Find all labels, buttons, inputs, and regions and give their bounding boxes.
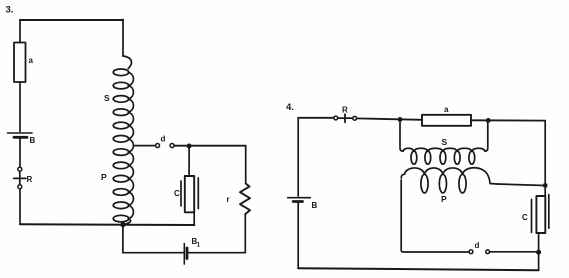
svg-text:C: C	[522, 213, 528, 222]
junction node (capacitor top, c4)	[543, 183, 548, 188]
wire: S coil left drop	[399, 119, 401, 147]
svg-text:4.: 4.	[286, 102, 294, 113]
svg-text:a: a	[444, 105, 449, 114]
capacitor C (circuit 4)	[532, 195, 549, 233]
wire: P coil left vertical down to key d	[401, 180, 469, 252]
svg-text:R: R	[342, 106, 348, 115]
resistor a (circuit 4)	[422, 115, 471, 126]
wire: battery B1 to bottom right	[189, 252, 246, 254]
wire: tap from coil to key d	[135, 145, 156, 147]
svg-text:P: P	[441, 194, 447, 204]
svg-text:S: S	[442, 137, 448, 147]
wire: capacitor C top lead (c4)	[544, 185, 546, 196]
junction node (S coil left, c4)	[398, 117, 403, 122]
wire: c3 coil top lead	[122, 20, 124, 57]
wire: c4 bottom right vertical	[538, 252, 540, 270]
wire: c4 top left segment	[298, 117, 334, 119]
wire: c3 left, resistor to battery	[19, 82, 21, 132]
svg-text:d: d	[161, 135, 166, 144]
svg-text:r: r	[227, 195, 230, 204]
battery B1 (circuit 3)	[184, 244, 187, 265]
svg-text:a: a	[29, 56, 34, 65]
junction node (S coil right, c4)	[486, 118, 491, 123]
wire: capacitor C bottom lead (c4)	[538, 233, 540, 252]
wire: c4 left vertical (top to battery)	[297, 118, 299, 196]
wire: P coil right stub to capacitor branch	[497, 184, 545, 186]
svg-text:B: B	[30, 136, 36, 145]
wire: c4 right vertical (top to capacitor)	[544, 121, 546, 186]
wire: key d to bottom right junction	[490, 251, 539, 253]
wire: junction down to capacitor C	[188, 146, 190, 176]
junction node (c4 bottom right)	[536, 250, 541, 255]
wire: key d to right branch	[174, 145, 246, 147]
svg-text:S: S	[104, 93, 110, 103]
wire: c3 left, key to bottom	[19, 189, 21, 225]
wire: right branch down to resistor r	[245, 146, 247, 184]
key d contacts (circuit 3)	[156, 144, 175, 148]
wire: c3 lower loop left vertical	[122, 225, 124, 253]
capacitor C (circuit 3)	[181, 176, 198, 212]
wire: c3 bottom horizontal	[20, 223, 194, 226]
wire: c3 lower loop to battery B1	[123, 252, 184, 254]
battery B (circuit 4)	[288, 198, 311, 202]
wire: resistor r to bottom right corner	[244, 214, 246, 253]
contact key R (circuit 4)	[334, 114, 357, 122]
junction node (c3 bottom)	[120, 222, 125, 227]
wire: c3 left, battery to key R	[19, 139, 21, 167]
svg-text:P: P	[101, 172, 107, 182]
svg-text:C: C	[174, 189, 180, 198]
key d contacts (circuit 4)	[469, 250, 489, 254]
resistor a (circuit 3)	[14, 43, 26, 83]
svg-text:R: R	[27, 175, 33, 184]
svg-text:d: d	[475, 241, 480, 250]
wire: c3 top horizontal	[20, 19, 123, 21]
svg-text:3.: 3.	[6, 5, 14, 16]
coil S (circuit 4)	[400, 148, 488, 164]
induction coil S/P (circuit 3)	[113, 56, 133, 224]
contact key R (circuit 3)	[14, 167, 26, 189]
wire: c3 left top vertical	[19, 20, 21, 43]
wire: c4 bottom horizontal	[298, 268, 538, 270]
resistor r zigzag (circuit 3)	[240, 184, 250, 215]
svg-text:B: B	[312, 201, 318, 210]
svg-text:1: 1	[197, 242, 201, 249]
junction node (capacitor branch, c3)	[187, 144, 192, 149]
battery B (circuit 3)	[8, 133, 33, 137]
wire: capacitor C bottom lead	[193, 212, 195, 225]
wire: c4 left vertical (battery to bottom)	[297, 203, 299, 268]
wire: c4 top, key R to resistor a	[357, 118, 422, 119]
wire: c4 top, resistor a to right corner	[471, 119, 545, 121]
coil P (circuit 4)	[401, 168, 497, 193]
wire: S coil right rise	[487, 120, 489, 147]
